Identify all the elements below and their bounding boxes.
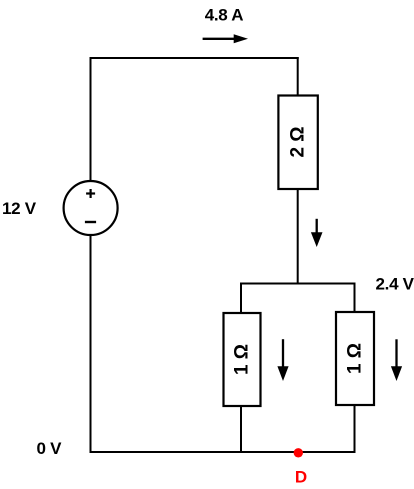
current arrow I-top <box>203 34 248 43</box>
wire right branch upper <box>354 283 356 313</box>
resistor 1 ohm right <box>336 312 374 405</box>
resistor 2 ohm <box>278 96 317 190</box>
current arrow I-left <box>277 339 288 381</box>
wire left lower <box>90 235 92 453</box>
svg-text:2 Ω: 2 Ω <box>287 126 308 157</box>
wire left branch upper <box>240 283 242 314</box>
wire left upper <box>90 57 92 181</box>
wire top <box>90 57 299 59</box>
svg-text:0 V: 0 V <box>37 439 63 458</box>
voltage source V1 <box>64 181 118 235</box>
wire right upper <box>297 57 299 96</box>
svg-text:2.4 V: 2.4 V <box>376 275 414 294</box>
node D dot <box>294 448 303 457</box>
current arrow I-mid <box>311 219 323 247</box>
wire bus horizontal <box>240 283 356 285</box>
wire right branch lower <box>354 405 356 453</box>
svg-text:D: D <box>295 468 307 487</box>
svg-text:4.8 A: 4.8 A <box>205 5 244 24</box>
wire bottom <box>90 451 356 453</box>
wire left branch lower <box>240 406 242 453</box>
svg-text:1 Ω: 1 Ω <box>232 344 253 375</box>
current arrow I-right <box>391 339 402 381</box>
svg-text:1 Ω: 1 Ω <box>345 343 366 374</box>
resistor 1 ohm left <box>224 313 261 406</box>
svg-text:12 V: 12 V <box>2 199 37 218</box>
wire middle vertical <box>297 189 299 285</box>
